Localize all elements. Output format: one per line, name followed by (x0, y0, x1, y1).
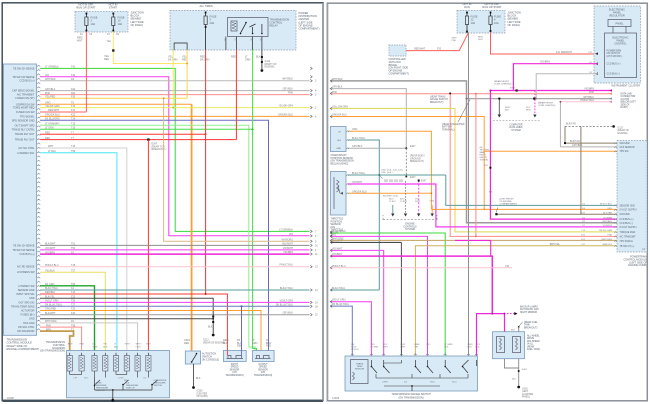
svg-text:T41: T41 (71, 66, 76, 69)
wire input speed signal (RED/BLK) (40, 294, 227, 351)
svg-text:OUT SHAFT SPD: OUT SHAFT SPD (15, 124, 35, 127)
relay coil (231, 21, 237, 31)
twisted pair hatches and E347 labels (385, 179, 402, 182)
panel box (608, 20, 631, 27)
svg-text:QUARTER: QUARTER (522, 393, 534, 396)
svg-text:T15: T15 (71, 123, 76, 126)
svg-text:WHT/BLK: WHT/BLK (602, 221, 612, 223)
computer data lines system stubs (498, 99, 500, 115)
controller antilock brake box (389, 45, 406, 56)
wire tps signal entry (ORG/DK BLU) (331, 117, 485, 210)
svg-text:POWER/GRM: POWER/GRM (607, 51, 622, 53)
svg-text:BLK/WHT: BLK/WHT (45, 312, 56, 315)
svg-text:(16-PIN): (16-PIN) (621, 99, 630, 101)
svg-text:SYSTEM: SYSTEM (511, 130, 521, 132)
wire ccd- entry (WHT/BLK) thick (331, 81, 618, 223)
TPS pin ticks (346, 175, 349, 194)
svg-text:YEL/DK GRN: YEL/DK GRN (279, 105, 294, 108)
svg-text:WHT/ORG: WHT/ORG (281, 238, 293, 241)
svg-text:LT BLU: LT BLU (48, 150, 56, 153)
svg-text:TB SW CH SENSE: TB SW CH SENSE (13, 244, 35, 247)
wire CCD bus+ upper (WHT/BLK) (40, 80, 310, 82)
panel to control links (612, 27, 614, 34)
svg-text:TPS SIGNAL: TPS SIGNAL (620, 240, 634, 243)
svg-text:W/4-SPEED: W/4-SPEED (527, 341, 540, 343)
svg-text:DK BLU/LT BLU: DK BLU/LT BLU (276, 303, 293, 306)
svg-text:SIG: SIG (337, 140, 341, 142)
TRS pin ticks (351, 354, 478, 355)
svg-text:DRIVE: DRIVE (527, 338, 534, 340)
right page border frame (327, 3, 647, 401)
wire tps ground (BLK/LT BLU) (348, 174, 446, 176)
engine controls system bracket (383, 219, 437, 221)
svg-text:LT BLU: LT BLU (351, 349, 359, 351)
svg-text:2/4 PRESS SW: 2/4 PRESS SW (17, 271, 35, 274)
svg-text:GRN: GRN (252, 342, 258, 345)
svg-text:GROUND: GROUND (620, 214, 631, 216)
svg-text:G302: G302 (522, 389, 528, 391)
wire sensor ground (BLK/LT BLU) to page edge (40, 289, 310, 291)
ground G112 under PDC (261, 50, 263, 69)
svg-text:BLK/WHT (3-4L): BLK/WHT (3-4L) (383, 196, 399, 198)
svg-text:RED/WHT: RED/WHT (48, 109, 60, 112)
fuse 12 (right junction block) (466, 12, 468, 17)
svg-text:CKP SENS SIGNAL: CKP SENS SIGNAL (12, 90, 35, 93)
svg-text:GRN: GRN (93, 346, 98, 348)
svg-text:VIO/BRN: VIO/BRN (45, 251, 55, 254)
svg-text:F11: F11 (556, 51, 561, 54)
svg-text:RED/WHT: RED/WHT (414, 48, 426, 51)
svg-text:SWITCH: SWITCH (154, 385, 163, 387)
svg-text:SWITCH: SWITCH (96, 390, 105, 392)
svg-text:ENGINE): ENGINE) (618, 132, 628, 135)
svg-text:DK: DK (93, 344, 97, 346)
svg-text:TRANSMISSION): TRANSMISSION) (254, 374, 272, 377)
electronic panel control box (605, 33, 637, 78)
svg-text:BLK: BLK (103, 346, 108, 348)
input sensor wire stubs (226, 351, 228, 356)
svg-text:VIO/BRN: VIO/BRN (603, 217, 612, 219)
svg-text:10A: 10A (471, 21, 476, 25)
wire ckp signal entry (GRY/BLK) (331, 89, 407, 149)
svg-text:DK BLU/LT BLU: DK BLU/LT BLU (332, 303, 349, 306)
svg-text:BELLHOUSING): BELLHOUSING) (331, 162, 349, 165)
svg-text:(ON: (ON (261, 372, 266, 374)
svg-text:SIDE OF: SIDE OF (621, 104, 631, 106)
svg-text:SYSTEM: SYSTEM (405, 228, 415, 231)
wire vio/brn entry to fuel and TRS (thick) (331, 256, 493, 314)
wire 2/4 pressure switch (YEL/BLK) (40, 272, 105, 350)
svg-text:BLK: BLK (505, 110, 510, 112)
wire TB sw ch sense lower (BLK/WHT) (40, 244, 310, 246)
wire CKP sensor signal (GRY/BLK) (40, 90, 310, 92)
wire abs feed (RED/WHT) (406, 33, 469, 51)
wire ccd- bus horizontal (WHT/BLK) (467, 98, 613, 100)
transmission control module box (3, 64, 36, 335)
svg-text:ENGINE): ENGINE) (265, 66, 275, 69)
svg-text:LT BLU: LT BLU (389, 201, 396, 203)
svg-text:TB SW CH (+): TB SW CH (+) (620, 246, 635, 248)
svg-text:OF DASH): OF DASH) (197, 395, 209, 398)
svg-text:GRY/BLK: GRY/BLK (352, 145, 363, 148)
svg-text:(NEAR INTEGRATED: (NEAR INTEGRATED (442, 123, 465, 126)
wire low/reverse switch (DK GRN) thick (40, 286, 95, 351)
svg-text:SENSOR: SENSOR (355, 369, 365, 371)
input sensor blue drop (241, 306, 243, 350)
svg-text:F30: F30 (71, 95, 76, 98)
wire fused B+ lower (GRY/BLK) to page edge (40, 314, 310, 316)
svg-text:PNK: PNK (452, 40, 457, 42)
svg-text:FUSED (B+): FUSED (B+) (21, 314, 35, 317)
svg-text:BREAKOUT): BREAKOUT) (524, 326, 538, 329)
svg-text:T57: T57 (71, 269, 76, 272)
svg-text:E347: E347 (421, 181, 427, 183)
wire lt grn/blk entry to TRS (331, 233, 446, 356)
svg-text:(ON TRANSMISSION): (ON TRANSMISSION) (398, 397, 423, 400)
crank sensor pin ticks (346, 131, 349, 149)
svg-text:(IN CONSOLE): (IN CONSOLE) (202, 358, 219, 361)
svg-text:(REAR FUEL: (REAR FUEL (524, 321, 538, 324)
svg-text:RED: RED (45, 137, 50, 140)
solenoid pressure switches (95, 378, 101, 386)
svg-text:GRY/BLK: GRY/BLK (283, 312, 294, 315)
svg-text:A/C TRANSMIT: A/C TRANSMIT (17, 94, 35, 97)
svg-text:NIGHT MIRROR: NIGHT MIRROR (520, 312, 537, 314)
svg-text:SOL: SOL (84, 378, 89, 380)
svg-text:BLK/LT BLU: BLK/LT BLU (352, 172, 365, 175)
svg-text:VIO: VIO (332, 233, 336, 236)
wire cluster ccd+ (VIO/BRN) (513, 64, 598, 91)
svg-text:CKP SENSOR: CKP SENSOR (620, 147, 635, 149)
svg-text:ORG: ORG (430, 201, 435, 203)
svg-text:PNK/LT BLU: PNK/LT BLU (280, 264, 294, 267)
svg-text:INSTRUMENT CLUSTER: INSTRUMENT CLUSTER (611, 85, 640, 88)
svg-text:BLK: BLK (468, 347, 473, 349)
svg-text:COMPARTMENT): COMPARTMENT) (500, 203, 518, 206)
svg-text:LT GRN: LT GRN (45, 127, 54, 130)
svg-text:PNK: PNK (608, 235, 613, 237)
svg-text:10A: 10A (118, 22, 123, 26)
svg-text:E347 (2-3L, 3-8L, 3-4L): E347 (2-3L, 3-8L, 3-4L) (382, 169, 404, 171)
solenoid coils (67, 356, 72, 372)
svg-text:WHT: WHT (383, 347, 389, 349)
svg-text:YELLOW GRN: YELLOW GRN (332, 105, 348, 108)
svg-text:A/C TRANSMIT: A/C TRANSMIT (620, 235, 637, 238)
svg-text:AUTOMATIC DAY/: AUTOMATIC DAY/ (520, 308, 540, 311)
svg-text:RUN OR START: RUN OR START (76, 5, 96, 9)
powertrain control module box (617, 141, 647, 253)
svg-text:FUSED IGN (ST): FUSED IGN (ST) (15, 97, 34, 100)
svg-text:T60: T60 (71, 283, 76, 286)
svg-text:ORG/DK BLU: ORG/DK BLU (352, 190, 367, 193)
svg-text:GND: GND (336, 148, 341, 150)
svg-text:ORG: ORG (352, 128, 358, 131)
svg-text:DK GRN: DK GRN (45, 283, 55, 286)
svg-text:BRN: BRN (526, 110, 531, 112)
svg-text:START: START (109, 5, 118, 9)
svg-text:VIO: VIO (45, 74, 49, 77)
wire a/c transmit entry (PNK) (331, 93, 613, 95)
svg-text:CCD BUS (+): CCD BUS (+) (620, 219, 634, 221)
svg-text:8-VOLT SUPPLY: 8-VOLT SUPPLY (620, 227, 638, 229)
svg-text:VIO/BRN: VIO/BRN (540, 61, 550, 64)
svg-text:CCD BUS (+): CCD BUS (+) (19, 80, 34, 83)
svg-text:TORQ MGMT REQ: TORQ MGMT REQ (13, 107, 35, 110)
svg-text:GND: GND (29, 318, 35, 321)
svg-text:GRY/BLK: GRY/BLK (332, 86, 343, 89)
svg-text:LT GRN/WHT: LT GRN/WHT (45, 123, 60, 126)
svg-text:VIO/BRN: VIO/BRN (283, 251, 293, 254)
svg-text:(REAR FRONT: (REAR FRONT (494, 80, 510, 83)
svg-text:(REAR OF ENGINE): (REAR OF ENGINE) (203, 341, 225, 344)
svg-text:TRANS RLY OUT: TRANS RLY OUT (15, 139, 35, 142)
TRS internal switches (370, 360, 372, 366)
wire torque management (YEL/DK GRN) to page edge (40, 107, 310, 109)
svg-text:RED: RED (266, 345, 271, 348)
wire trans relay control (LT GRN) to relay 86 (40, 128, 253, 130)
svg-text:COWL LIGHTED): COWL LIGHTED) (538, 105, 556, 107)
trans temp sensor sub box (351, 360, 369, 384)
power distribution center box (170, 11, 296, 51)
svg-text:(LEFT: (LEFT (522, 391, 529, 393)
svg-text:L/REV: L/REV (382, 382, 389, 384)
svg-text:SWITCH: SWITCH (126, 388, 135, 390)
engine controls ground stubs (392, 205, 394, 214)
svg-text:VIO/WHT: VIO/WHT (283, 247, 294, 250)
right page edge connector chevrons (330, 80, 332, 308)
svg-text:DK BLU/ORG: DK BLU/ORG (45, 118, 60, 121)
svg-text:RUN: RUN (464, 5, 470, 9)
svg-text:PNK: PNK (332, 91, 337, 94)
svg-text:LT GRN/BLK: LT GRN/BLK (45, 66, 59, 69)
wire autostick signal (ORG) thick (40, 103, 192, 105)
svg-text:VIO/WHT: VIO/WHT (352, 181, 363, 184)
ground G112 column (212, 313, 214, 334)
svg-text:D21: D21 (71, 92, 76, 95)
svg-text:BLK: BLK (444, 347, 449, 349)
output speed sensor box (253, 351, 275, 362)
svg-text:BACKUP LAMPS: BACKUP LAMPS (520, 306, 538, 309)
svg-text:BLK: BLK (223, 342, 228, 345)
wire 5-volt supply bus (ORG) (431, 208, 617, 210)
svg-text:(REAR: (REAR (527, 345, 534, 348)
wire trans temp sense (DK BLU/LT BLU) to page edge (40, 305, 310, 307)
svg-text:BRN: BRN (46, 328, 51, 331)
wire CCD bus+ lower (VIO/BRN) thick (40, 253, 310, 255)
svg-text:DK BLU/LT BLU: DK BLU/LT BLU (45, 304, 62, 307)
svg-text:SPEED: SPEED (231, 367, 239, 369)
wire crank signal (BLK/LT BLU) (348, 140, 379, 290)
svg-text:FUSED IGN SW: FUSED IGN SW (16, 111, 35, 114)
backup lamps annotation (507, 313, 515, 315)
svg-text:T27: T27 (71, 304, 76, 307)
svg-text:REGULATOR: REGULATOR (609, 15, 625, 18)
svg-text:OF DASH): OF DASH) (131, 23, 144, 27)
wire sensor ground tree (BLK/LT BLU) (446, 175, 617, 205)
svg-text:K24: K24 (71, 88, 76, 91)
wire dk blu/lt blu entry to TRS (331, 306, 353, 356)
svg-text:PANEL): PANEL) (522, 396, 530, 399)
wire vio entry to TRS (331, 236, 428, 356)
svg-text:ENGINE COMP): ENGINE COMP) (628, 264, 647, 267)
fuel sender symbols (497, 337, 505, 353)
svg-text:TRANS RLY OUT: TRANS RLY OUT (15, 133, 35, 136)
svg-text:BLK/TAN: BLK/TAN (603, 211, 612, 214)
svg-text:INPUT SPD SIG: INPUT SPD SIG (16, 293, 34, 296)
wire fused B+ (RED/WHT) from junction block (40, 111, 86, 113)
svg-text:T42: T42 (71, 74, 76, 77)
cluster pin arrows (595, 52, 598, 55)
wire pnk/lt blu entry stub (331, 267, 513, 269)
svg-text:HAS GND: HAS GND (23, 322, 35, 325)
wire TPS signal (ORG/DK BLU) to page edge (40, 115, 310, 117)
wire ccd+ bus horizontal (VIO/BRN) (490, 90, 612, 92)
svg-text:PNK/LT BLU: PNK/LT BLU (332, 265, 346, 268)
wire ground (BLK/YEL) to G112 (40, 298, 213, 313)
svg-text:BLK: BLK (256, 56, 261, 59)
fuse 4 (right junction block) (490, 12, 492, 17)
svg-text:K22: K22 (71, 114, 76, 117)
svg-text:COMPARTMENT): COMPARTMENT) (299, 27, 320, 31)
svg-text:BLK: BLK (208, 326, 213, 329)
svg-text:BLK/WHT: BLK/WHT (45, 243, 56, 246)
svg-text:ORG/DK BLU: ORG/DK BLU (278, 113, 293, 116)
svg-text:BLU: BLU (114, 346, 119, 348)
svg-text:DATA LINK: DATA LINK (621, 93, 633, 96)
wire sensor gnd entry (BLK/LT BLU) (331, 289, 380, 291)
trans temp sensor symbol (353, 372, 355, 380)
svg-text:BLK: BLK (476, 347, 481, 349)
wire wht/org tps signal (left page) (164, 98, 310, 241)
svg-text:ORG/DK BLU: ORG/DK BLU (45, 114, 60, 117)
svg-text:T59: T59 (71, 150, 76, 153)
svg-text:PNK: PNK (80, 344, 85, 346)
svg-text:VIO/WHT: VIO/WHT (45, 247, 56, 250)
svg-text:OUTPUT: OUTPUT (258, 364, 268, 366)
svg-text:VIO: VIO (289, 233, 293, 236)
svg-text:SENSOR GND: SENSOR GND (620, 205, 636, 207)
input speed sensor symbol (228, 356, 231, 359)
svg-text:WHT/: WHT/ (136, 344, 142, 346)
wire ground 2 (BLK) to G112 (40, 318, 213, 320)
svg-text:OD: OD (143, 378, 147, 380)
svg-text:(REAR FRONT: (REAR FRONT (538, 101, 554, 104)
svg-text:(BELOW LEFT: (BELOW LEFT (621, 102, 637, 104)
svg-text:RED: RED (231, 56, 236, 59)
svg-text:BREAKOUT): BREAKOUT) (410, 160, 424, 163)
svg-text:T16: T16 (71, 145, 76, 148)
svg-text:FUEL TANK): FUEL TANK) (527, 348, 540, 351)
svg-text:L/R: L/R (74, 378, 78, 380)
svg-text:T54: T54 (71, 247, 76, 250)
wire crank ground (GRY/BLK) (348, 147, 406, 149)
svg-text:GRY/BLK: GRY/BLK (283, 88, 294, 91)
svg-text:T16: T16 (71, 127, 76, 130)
wire brn/yel PCM to TRS (415, 246, 617, 356)
svg-text:SENSOR: SENSOR (258, 369, 268, 371)
svg-text:WHT/ORG: WHT/ORG (45, 320, 57, 323)
svg-text:ORG: ORG (607, 208, 612, 210)
wire has ground (WHT/ORG) to solenoid (40, 323, 138, 351)
svg-text:TORQUE MGD: TORQUE MGD (620, 232, 636, 234)
throttle position sensor box (331, 172, 347, 216)
solenoid coil bottom bus (69, 371, 71, 375)
svg-text:TB SW CW SENSE: TB SW CW SENSE (13, 76, 35, 79)
wire cluster feed (RED/WHT) (491, 32, 599, 54)
wire torque mgmt entry (YEL/DK GRN) (331, 108, 618, 231)
svg-text:T13: T13 (71, 105, 76, 108)
svg-text:SPD SENSOR GND: SPD SENSOR GND (12, 119, 35, 122)
svg-text:BRN/YEL: BRN/YEL (603, 244, 613, 246)
svg-text:PNK: PNK (45, 92, 50, 95)
svg-text:TB SW CH SENSE: TB SW CH SENSE (13, 67, 35, 70)
svg-text:A/C RD SENSE: A/C RD SENSE (17, 266, 35, 269)
wire ccd+ to PCM (VIO/BRN) (490, 91, 617, 220)
svg-text:BRN/YEL: BRN/YEL (550, 243, 561, 246)
svg-text:RED/WHT: RED/WHT (561, 51, 573, 54)
svg-text:14308: 14308 (7, 396, 15, 400)
svg-text:(AT 8-VB OFF): (AT 8-VB OFF) (607, 55, 622, 58)
svg-text:BLK/LT BLU: BLK/LT BLU (352, 137, 365, 140)
svg-text:BRN: BRN (68, 344, 73, 346)
fuel tank ground wires (505, 359, 519, 368)
transmission solenoid assembly box (67, 351, 170, 398)
svg-text:(NEAR TRANS: (NEAR TRANS (430, 96, 446, 99)
svg-text:ON OUTPUT: ON OUTPUT (607, 53, 621, 55)
svg-text:T51: T51 (71, 243, 76, 246)
wire output shaft speed (LT GRN/WHT) (40, 125, 255, 350)
svg-text:20A: 20A (210, 21, 215, 25)
svg-text:TRANS TEMP SENS: TRANS TEMP SENS (11, 305, 35, 308)
svg-text:PNK: PNK (288, 92, 293, 95)
wire fuse feed (RED/DK GRN) vertical (205, 50, 207, 294)
wire output speed signal (VIO/LT GRN) to page edge (40, 301, 310, 303)
wire low/reverse solenoid (LT BLU) (40, 153, 117, 351)
svg-text:WHT: WHT (400, 347, 406, 349)
wire pcm ground (BLK/TAN) (580, 126, 582, 214)
svg-text:BLK/LT BLU: BLK/LT BLU (600, 204, 612, 206)
svg-text:10A: 10A (494, 21, 499, 25)
fuse 2 (PDC) (205, 12, 207, 17)
svg-text:10A: 10A (91, 22, 96, 26)
wire wht/org TPS signal row to PCM (331, 239, 618, 241)
svg-text:BLK: BLK (511, 330, 516, 332)
svg-text:GND: GND (29, 297, 35, 300)
svg-text:E347: E347 (410, 145, 416, 148)
svg-text:CCD BUS (+): CCD BUS (+) (607, 64, 621, 66)
svg-text:TRANS: TRANS (356, 363, 364, 366)
wire blk/wht entry to TRS (331, 241, 402, 243)
svg-text:SENSOR: SENSOR (230, 369, 240, 371)
svg-text:DK GRN: DK GRN (200, 58, 210, 61)
svg-text:RED: RED (146, 344, 151, 346)
wire actuator (ORG/RED) to output sensor (40, 311, 261, 351)
svg-text:BLK: BLK (512, 379, 517, 381)
wire vio/lt grn entry to TRS (331, 302, 372, 356)
svg-text:LT GRN/BLK: LT GRN/BLK (279, 228, 293, 231)
svg-text:VIO/LT GRN: VIO/LT GRN (45, 300, 59, 303)
svg-text:WHT: WHT (415, 201, 420, 203)
svg-text:RUN OR START: RUN OR START (482, 5, 502, 9)
wire tps 8v (VIO/WHT) (348, 184, 617, 227)
svg-text:OD SOLENOID: OD SOLENOID (17, 330, 35, 333)
svg-text:OD SOL CTRL: OD SOL CTRL (18, 326, 35, 329)
svg-text:YEL: YEL (107, 40, 112, 43)
junction block fuse box (left page) (75, 11, 128, 32)
svg-text:YEL/DK GRN: YEL/DK GRN (45, 105, 60, 108)
wire tps orange (ORG) (348, 192, 431, 194)
wire wht/pnk fuse to TRS (468, 33, 470, 356)
